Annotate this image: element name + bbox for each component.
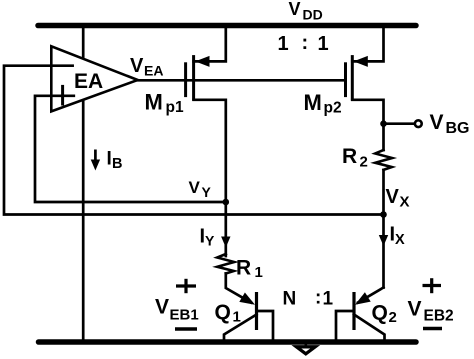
svg-text:p2: p2 [324,100,342,117]
svg-text:EA: EA [74,70,103,93]
svg-text:Q: Q [215,301,231,324]
svg-text:EB2: EB2 [424,308,454,325]
svg-text:Q: Q [372,302,388,325]
svg-text:1: 1 [323,289,334,310]
svg-text:2: 2 [389,309,397,326]
svg-text:R: R [342,145,357,168]
svg-text:R: R [236,257,251,280]
svg-text:X: X [395,232,405,248]
svg-text:N: N [283,289,297,310]
svg-text:V: V [155,296,169,319]
svg-text:V: V [408,298,422,321]
svg-text:p1: p1 [166,99,184,116]
svg-text:1: 1 [318,33,329,55]
svg-text:BG: BG [446,120,470,137]
svg-text:V: V [430,111,444,134]
svg-text:I: I [107,149,112,170]
svg-text:B: B [112,156,122,172]
svg-text::: : [315,288,321,309]
svg-text:V: V [289,0,301,19]
svg-text:X: X [400,194,410,211]
svg-text:M: M [145,90,163,115]
svg-text:1: 1 [278,33,289,55]
svg-text:M: M [304,90,322,115]
svg-text:1: 1 [255,264,263,281]
svg-text:2: 2 [360,154,368,171]
svg-text::: : [302,32,309,54]
svg-text:EB1: EB1 [170,307,199,324]
svg-text:1: 1 [233,309,241,326]
svg-text:Y: Y [205,233,215,249]
svg-text:Y: Y [202,184,212,200]
svg-text:V: V [189,178,201,197]
svg-text:DD: DD [303,7,323,23]
svg-text:V: V [386,186,400,208]
svg-text:EA: EA [144,63,163,79]
svg-text:V: V [130,55,144,77]
